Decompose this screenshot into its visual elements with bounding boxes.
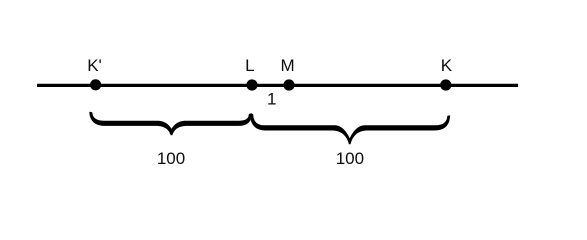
node K' dot [90, 79, 101, 90]
wire: horizontal number line [37, 84, 518, 87]
node L dot [246, 79, 257, 90]
svg-text:1: 1 [267, 90, 276, 109]
svg-text:M: M [281, 56, 295, 75]
svg-text:K: K [441, 56, 453, 75]
node K dot [440, 79, 451, 90]
left underbrace [90, 112, 252, 135]
svg-text:100: 100 [157, 149, 185, 168]
svg-text:L: L [245, 56, 254, 75]
node M dot [283, 79, 294, 90]
svg-text:K': K' [87, 56, 102, 75]
svg-text:100: 100 [336, 149, 364, 168]
right underbrace [250, 114, 450, 144]
